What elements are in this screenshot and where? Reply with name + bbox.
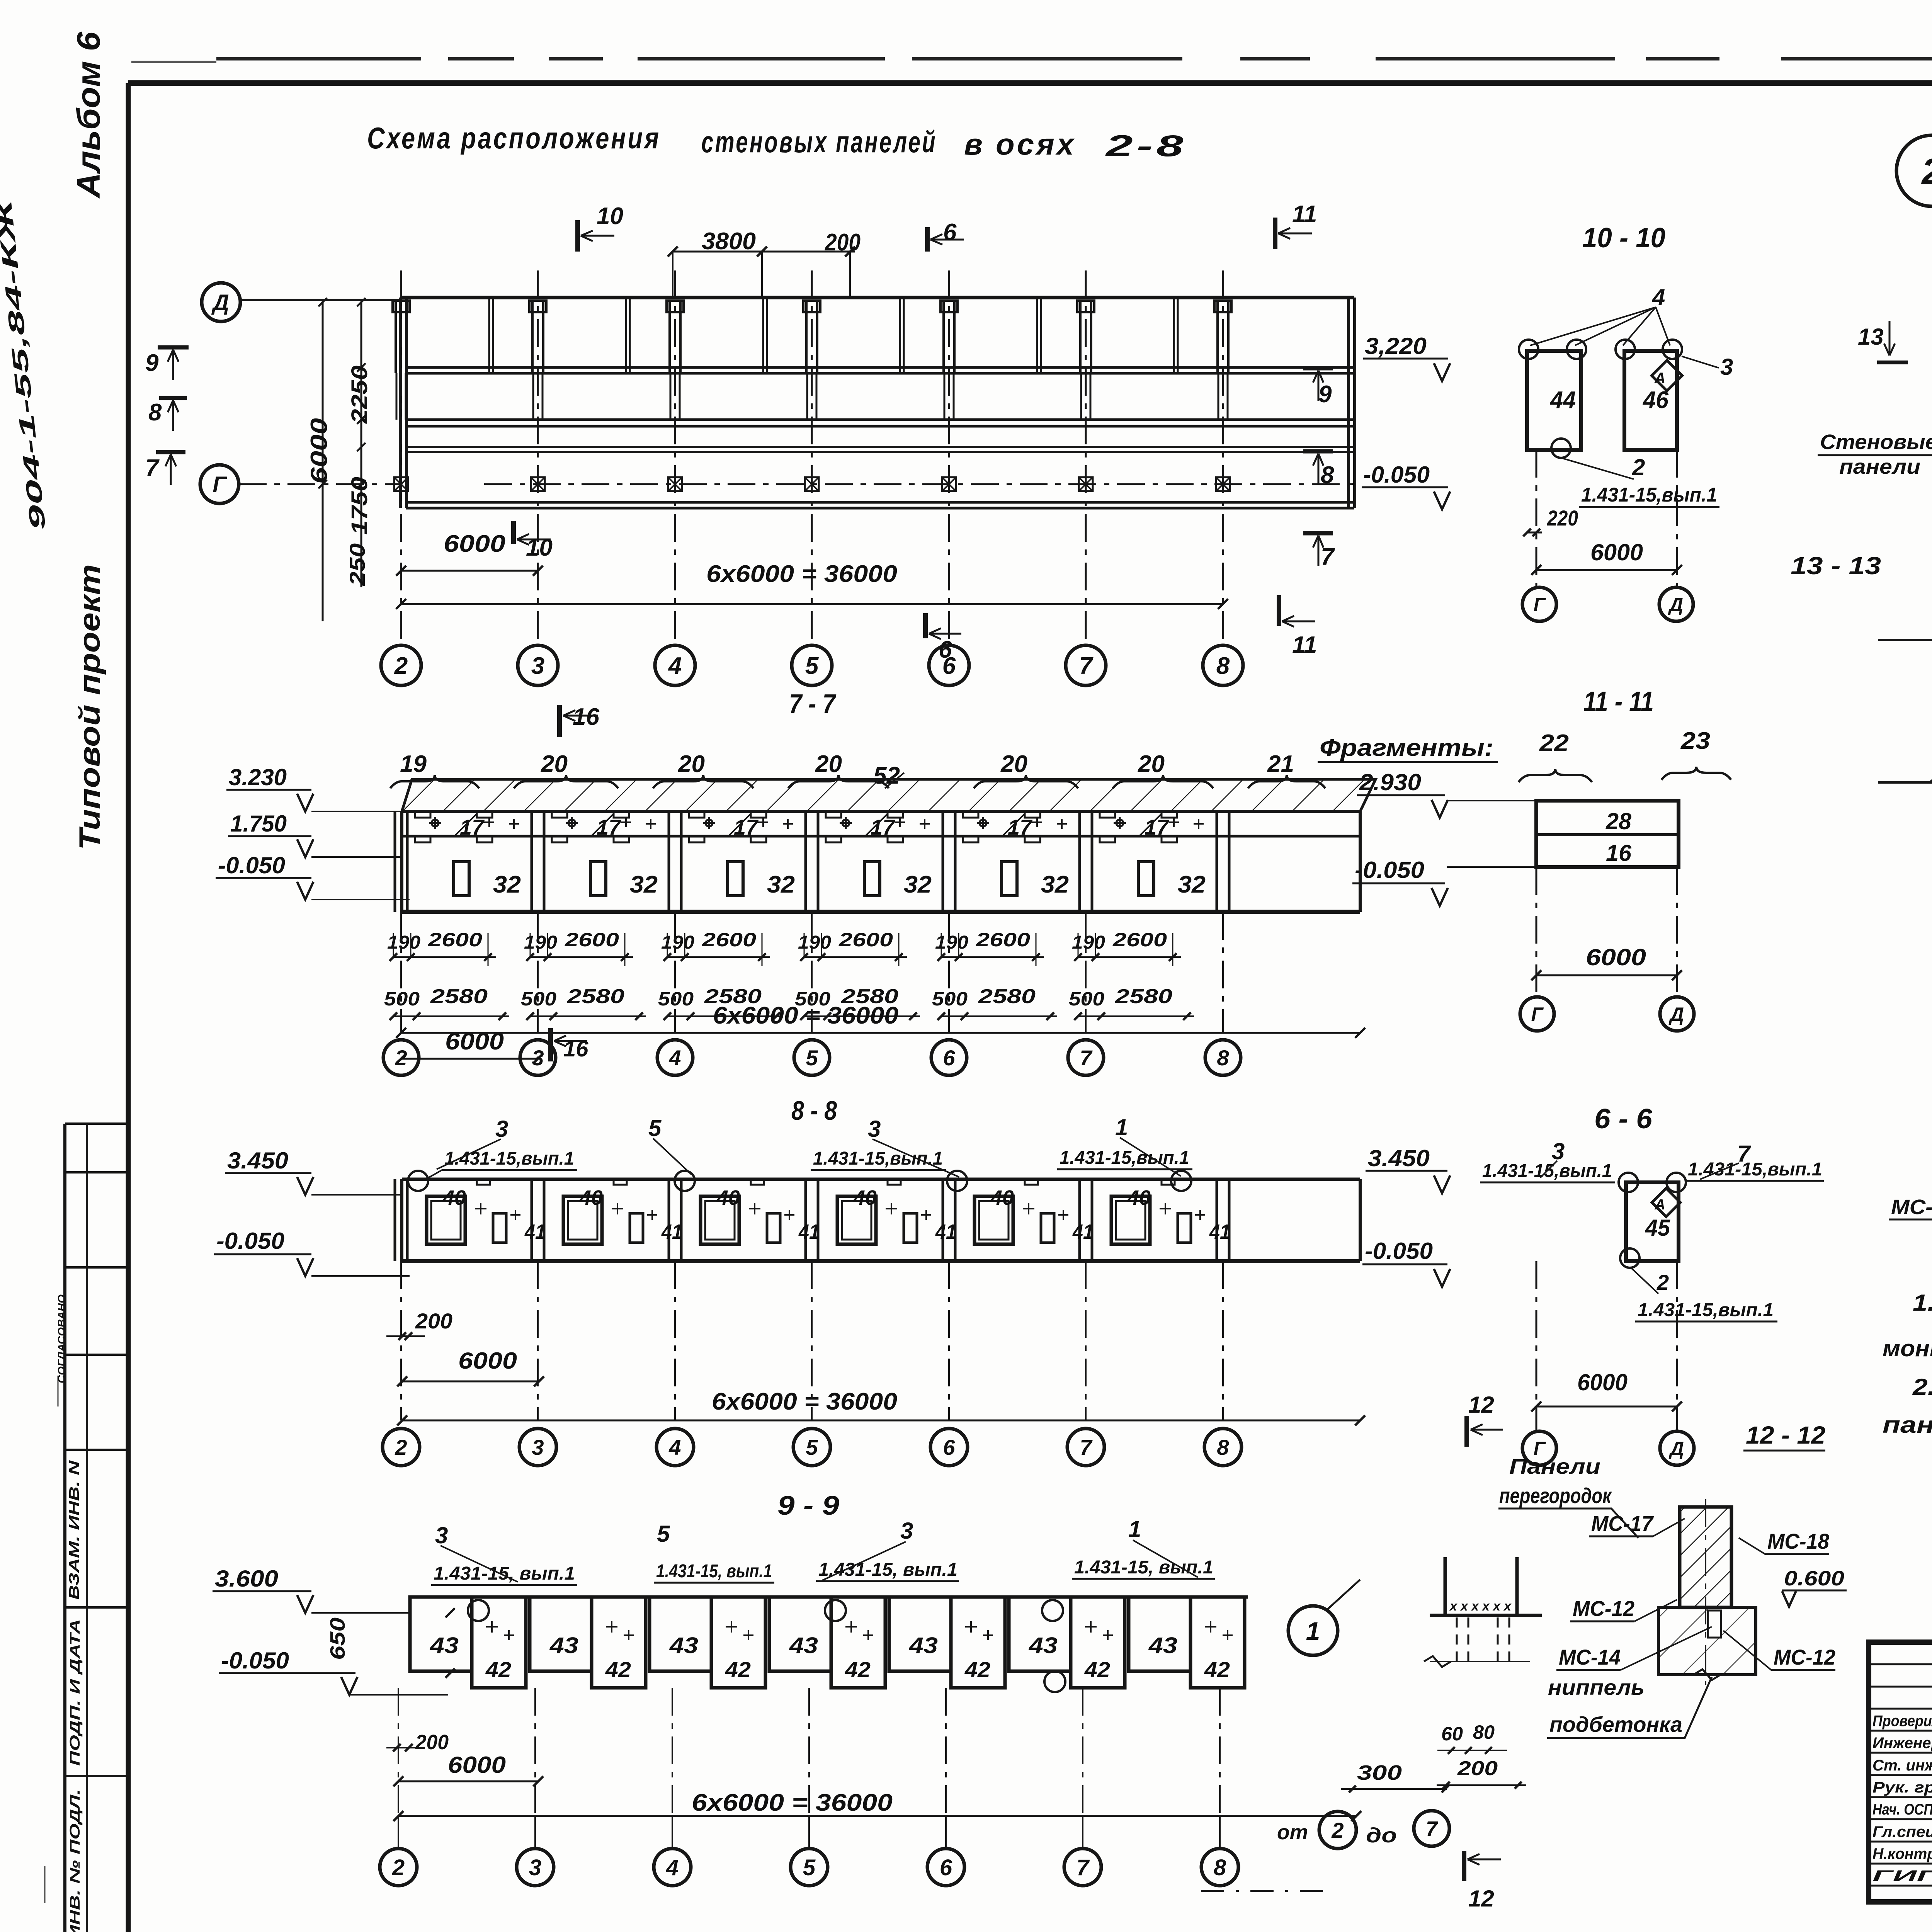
svg-text:2: 2 [1632,454,1645,480]
svg-text:6000: 6000 [1586,944,1646,970]
svg-text:3.450: 3.450 [227,1148,288,1173]
svg-text:5: 5 [806,1435,818,1459]
svg-text:ВЗАМ. ИНВ. N: ВЗАМ. ИНВ. N [66,1460,82,1600]
svg-text:6x6000 = 36000: 6x6000 = 36000 [712,1388,897,1415]
svg-text:41: 41 [524,1220,546,1243]
svg-text:2600: 2600 [838,929,893,951]
svg-text:10: 10 [597,203,623,230]
svg-text:9: 9 [1318,381,1332,408]
svg-text:4: 4 [666,1855,679,1880]
svg-text:40: 40 [442,1186,466,1209]
svg-text:А: А [1654,1197,1665,1213]
svg-text:7: 7 [1079,653,1094,679]
svg-text:Д: Д [211,290,229,315]
svg-text:Г: Г [1534,594,1546,616]
svg-text:650: 650 [326,1617,349,1660]
svg-text:2580: 2580 [978,985,1036,1008]
svg-text:10 - 10: 10 - 10 [1582,223,1665,253]
svg-text:200: 200 [415,1309,452,1333]
svg-text:Гл.спец.: Гл.спец. [1872,1823,1932,1840]
svg-text:МС-12: МС-12 [1573,1596,1634,1621]
svg-text:1: 1 [1306,1617,1320,1645]
svg-text:40: 40 [1127,1186,1151,1209]
svg-text:Панели: Панели [1509,1454,1600,1478]
svg-text:3: 3 [495,1116,508,1142]
svg-text:2: 2 [395,1435,407,1459]
svg-text:2580: 2580 [1115,985,1172,1008]
svg-text:8: 8 [148,399,162,426]
svg-text:42: 42 [485,1657,511,1682]
svg-text:Г: Г [213,472,227,497]
svg-text:2600: 2600 [565,929,619,951]
svg-text:7 - 7: 7 - 7 [789,689,837,719]
svg-text:6x6000 = 36000: 6x6000 = 36000 [713,1002,898,1029]
svg-text:43: 43 [1029,1633,1058,1658]
svg-text:22: 22 [1539,730,1569,757]
svg-text:8: 8 [1214,1855,1226,1880]
svg-text:ПОДП. И ДАТА: ПОДП. И ДАТА [67,1619,83,1766]
svg-text:8: 8 [1216,653,1230,679]
svg-text:1.431-15, вып.1: 1.431-15, вып.1 [434,1563,575,1584]
svg-text:1. Индекс: 1. Индекс [1913,1290,1932,1316]
svg-text:1.750: 1.750 [230,811,287,837]
svg-text:2: 2 [392,1855,405,1880]
svg-text:40: 40 [853,1186,877,1209]
svg-text:13 - 13: 13 - 13 [1791,552,1881,580]
svg-text:40: 40 [579,1186,603,1209]
svg-text:Альбом 6: Альбом 6 [70,31,107,199]
svg-text:МС-17: МС-17 [1591,1511,1654,1536]
svg-text:Фрагменты:: Фрагменты: [1320,735,1493,761]
svg-text:-0.050: -0.050 [1363,462,1430,488]
svg-text:Г: Г [1531,1003,1544,1025]
svg-text:20: 20 [541,751,568,777]
svg-text:20: 20 [1138,751,1165,777]
svg-text:Ст. инж.: Ст. инж. [1872,1757,1932,1774]
svg-text:41: 41 [1209,1220,1230,1243]
svg-text:Схема расположения: Схема расположения [367,121,661,155]
svg-text:перегородок: перегородок [1499,1483,1612,1508]
svg-text:3.600: 3.600 [215,1566,278,1592]
svg-text:2600: 2600 [1112,929,1167,951]
svg-text:200: 200 [415,1731,449,1754]
svg-text:6x6000 = 36000: 6x6000 = 36000 [706,561,897,587]
svg-text:220: 220 [1547,506,1578,530]
svg-text:32: 32 [767,871,795,898]
svg-text:500: 500 [521,988,556,1010]
svg-text:41: 41 [935,1220,956,1243]
svg-text:4: 4 [1652,284,1665,310]
svg-text:28: 28 [1605,808,1632,834]
svg-text:19: 19 [400,751,427,777]
svg-text:6000: 6000 [448,1752,506,1778]
svg-text:42: 42 [1084,1657,1110,1682]
svg-text:Типовой проект: Типовой проект [73,564,106,850]
svg-text:2: 2 [395,1046,407,1070]
svg-text:32: 32 [1178,871,1206,898]
svg-text:40: 40 [716,1186,740,1209]
svg-text:6 - 6: 6 - 6 [1594,1104,1653,1134]
svg-text:А: А [1654,370,1666,387]
svg-text:32: 32 [493,871,521,898]
svg-text:44: 44 [1549,387,1576,413]
svg-text:x: x [1460,1599,1469,1614]
svg-text:3: 3 [900,1518,913,1544]
svg-text:20: 20 [815,751,842,777]
svg-text:190: 190 [387,932,420,953]
svg-text:20: 20 [678,751,705,777]
svg-text:43: 43 [909,1633,938,1658]
svg-text:0.600: 0.600 [1784,1567,1844,1590]
svg-text:в осях: в осях [964,127,1076,161]
svg-text:300: 300 [1357,1761,1402,1784]
svg-text:3: 3 [532,1435,544,1459]
svg-text:2: 2 [394,653,408,679]
svg-text:-0.050: -0.050 [1365,1238,1433,1264]
svg-text:500: 500 [1069,988,1104,1010]
svg-text:7: 7 [1080,1046,1093,1070]
svg-text:2-8: 2-8 [1105,129,1187,163]
svg-text:4: 4 [668,653,682,679]
svg-text:12: 12 [1468,1392,1494,1418]
svg-text:5: 5 [805,653,819,679]
svg-text:40: 40 [990,1186,1014,1209]
svg-text:3: 3 [435,1522,448,1548]
svg-text:42: 42 [1204,1657,1230,1682]
svg-text:1.431-15,вып.1: 1.431-15,вып.1 [1581,484,1717,506]
svg-text:x: x [1471,1599,1480,1614]
svg-text:42: 42 [725,1657,751,1682]
svg-text:от: от [1277,1821,1308,1844]
svg-text:МС-18: МС-18 [1767,1529,1830,1553]
svg-text:43: 43 [1148,1633,1177,1658]
svg-text:1.431-15,вып.1: 1.431-15,вып.1 [1060,1148,1189,1168]
svg-text:Инженер: Инженер [1872,1735,1932,1752]
svg-text:2600: 2600 [702,929,756,951]
svg-text:60: 60 [1441,1723,1463,1745]
svg-text:12 - 12: 12 - 12 [1746,1421,1825,1449]
svg-text:2: 2 [1921,151,1932,192]
svg-text:3: 3 [532,1046,544,1070]
svg-text:1.431-15, вып.1: 1.431-15, вып.1 [818,1560,957,1580]
svg-text:Н.контр.: Н.контр. [1872,1845,1932,1862]
svg-text:190: 190 [661,932,694,953]
svg-text:16: 16 [1606,840,1632,866]
svg-text:20: 20 [1000,751,1027,777]
svg-text:1: 1 [1128,1516,1141,1542]
svg-text:500: 500 [932,988,968,1010]
svg-text:подбетонка: подбетонка [1549,1712,1682,1736]
svg-text:2580: 2580 [567,985,624,1008]
svg-text:46: 46 [1642,387,1668,413]
svg-text:200: 200 [825,229,861,256]
svg-text:200: 200 [1457,1757,1498,1780]
svg-text:ИНВ. № ПОДЛ.: ИНВ. № ПОДЛ. [67,1789,83,1932]
svg-text:32: 32 [1041,871,1069,898]
svg-text:45: 45 [1645,1215,1671,1241]
svg-text:5: 5 [657,1521,670,1547]
svg-text:10: 10 [526,534,553,561]
svg-text:3: 3 [1552,1138,1565,1164]
svg-text:3: 3 [529,1855,541,1880]
svg-text:Д: Д [1668,1438,1684,1459]
svg-text:80: 80 [1473,1721,1495,1743]
svg-text:42: 42 [845,1657,871,1682]
svg-text:7: 7 [1080,1435,1093,1459]
svg-text:190: 190 [798,932,831,953]
svg-text:4: 4 [668,1435,681,1459]
svg-text:1.431-15,вып.1: 1.431-15,вып.1 [1638,1300,1774,1320]
svg-text:43: 43 [789,1633,818,1658]
svg-text:12: 12 [1468,1886,1494,1912]
svg-text:x: x [1503,1599,1512,1614]
svg-text:МС-14: МС-14 [1559,1645,1621,1669]
svg-text:x: x [1481,1599,1490,1614]
svg-text:32: 32 [904,871,932,898]
svg-text:3,220: 3,220 [1365,333,1427,359]
svg-text:2250: 2250 [347,366,372,424]
svg-text:5: 5 [648,1115,662,1141]
svg-text:11: 11 [1292,201,1317,228]
svg-text:6: 6 [943,1435,955,1459]
svg-text:32: 32 [630,871,658,898]
svg-text:7: 7 [1077,1855,1090,1880]
svg-text:42: 42 [605,1657,631,1682]
svg-text:3800: 3800 [702,228,756,255]
svg-text:16: 16 [573,704,599,730]
svg-text:41: 41 [661,1220,682,1243]
svg-text:8: 8 [1321,462,1334,488]
svg-text:6: 6 [943,1046,955,1070]
svg-text:5: 5 [806,1046,818,1070]
svg-text:Д: Д [1668,1003,1684,1025]
svg-text:панели: панели [1839,455,1920,478]
svg-text:-0.050: -0.050 [218,852,285,878]
svg-text:Стеновые: Стеновые [1820,430,1932,454]
svg-text:ГИП: ГИП [1872,1867,1932,1884]
svg-text:43: 43 [430,1633,459,1658]
svg-text:5: 5 [803,1855,816,1880]
svg-text:-0.050: -0.050 [221,1648,289,1673]
svg-text:6000: 6000 [458,1348,517,1374]
svg-text:Рук. гр.: Рук. гр. [1872,1779,1932,1796]
svg-text:x: x [1492,1599,1501,1614]
svg-text:МС-2: МС-2 [1891,1196,1932,1219]
svg-text:-0.050: -0.050 [1355,857,1424,883]
svg-text:6000: 6000 [444,531,505,557]
svg-text:41: 41 [798,1220,820,1243]
svg-text:Нач. ОСП./: Нач. ОСП./ [1872,1801,1932,1818]
svg-text:43: 43 [669,1633,698,1658]
svg-text:8 - 8: 8 - 8 [791,1095,837,1126]
svg-text:7: 7 [1321,544,1335,570]
svg-text:43: 43 [549,1633,578,1658]
svg-text:41: 41 [1072,1220,1094,1243]
svg-text:2. Фрагменты: 2. Фрагменты [1912,1374,1932,1400]
svg-text:190: 190 [935,932,968,953]
svg-text:190: 190 [524,932,557,953]
svg-text:3.450: 3.450 [1368,1145,1430,1171]
svg-text:21: 21 [1267,751,1294,777]
svg-text:8: 8 [1217,1046,1229,1070]
svg-text:9 - 9: 9 - 9 [777,1490,839,1520]
svg-text:2: 2 [1331,1818,1344,1842]
svg-text:9: 9 [145,350,159,376]
svg-text:7: 7 [1426,1817,1439,1840]
svg-text:8: 8 [1217,1435,1229,1459]
svg-text:4: 4 [668,1046,681,1070]
svg-text:монтаже.: монтаже. [1883,1335,1932,1361]
svg-text:Проверил: Проверил [1872,1713,1932,1730]
svg-text:стеновых панелей: стеновых панелей [701,125,937,159]
svg-text:2: 2 [1656,1270,1669,1294]
svg-text:13: 13 [1858,324,1884,350]
svg-text:Д: Д [1668,594,1683,616]
svg-text:2600: 2600 [428,929,482,951]
svg-text:1750: 1750 [347,477,372,535]
svg-text:6: 6 [940,1855,952,1880]
svg-text:11: 11 [1292,632,1317,658]
svg-text:3.230: 3.230 [229,764,287,790]
svg-text:3: 3 [531,653,544,679]
svg-text:11 - 11: 11 - 11 [1583,686,1654,717]
svg-text:7: 7 [145,455,160,481]
svg-text:500: 500 [658,988,694,1010]
svg-text:190: 190 [1072,932,1105,953]
svg-text:500: 500 [384,988,420,1010]
svg-text:1.431-15,вып.1: 1.431-15,вып.1 [444,1148,574,1169]
svg-text:23: 23 [1680,728,1710,754]
svg-text:1: 1 [1115,1114,1128,1140]
svg-text:до: до [1366,1824,1397,1847]
svg-text:1.431-15, вып.1: 1.431-15, вып.1 [656,1561,772,1582]
svg-text:6: 6 [939,636,952,663]
svg-text:6: 6 [943,219,957,246]
svg-text:16: 16 [563,1036,588,1061]
svg-text:6000: 6000 [1590,539,1643,565]
svg-text:3: 3 [1720,354,1733,380]
svg-text:2580: 2580 [430,985,488,1008]
svg-text:6x6000 = 36000: 6x6000 = 36000 [692,1789,893,1816]
svg-text:МС-12: МС-12 [1774,1645,1835,1669]
svg-text:-0.050: -0.050 [216,1228,284,1254]
svg-text:6000: 6000 [1577,1369,1628,1395]
svg-text:42: 42 [964,1657,990,1682]
svg-text:x: x [1449,1599,1458,1614]
svg-text:ниппель: ниппель [1548,1675,1645,1699]
svg-text:250: 250 [345,543,369,586]
svg-text:панелей смотрите на ли: панелей смотрите на листе 34. [1883,1412,1932,1438]
svg-text:1.431-15,вып.1: 1.431-15,вып.1 [813,1148,943,1169]
svg-text:2600: 2600 [976,929,1030,951]
svg-text:3: 3 [868,1116,881,1142]
svg-text:6000: 6000 [306,418,332,484]
